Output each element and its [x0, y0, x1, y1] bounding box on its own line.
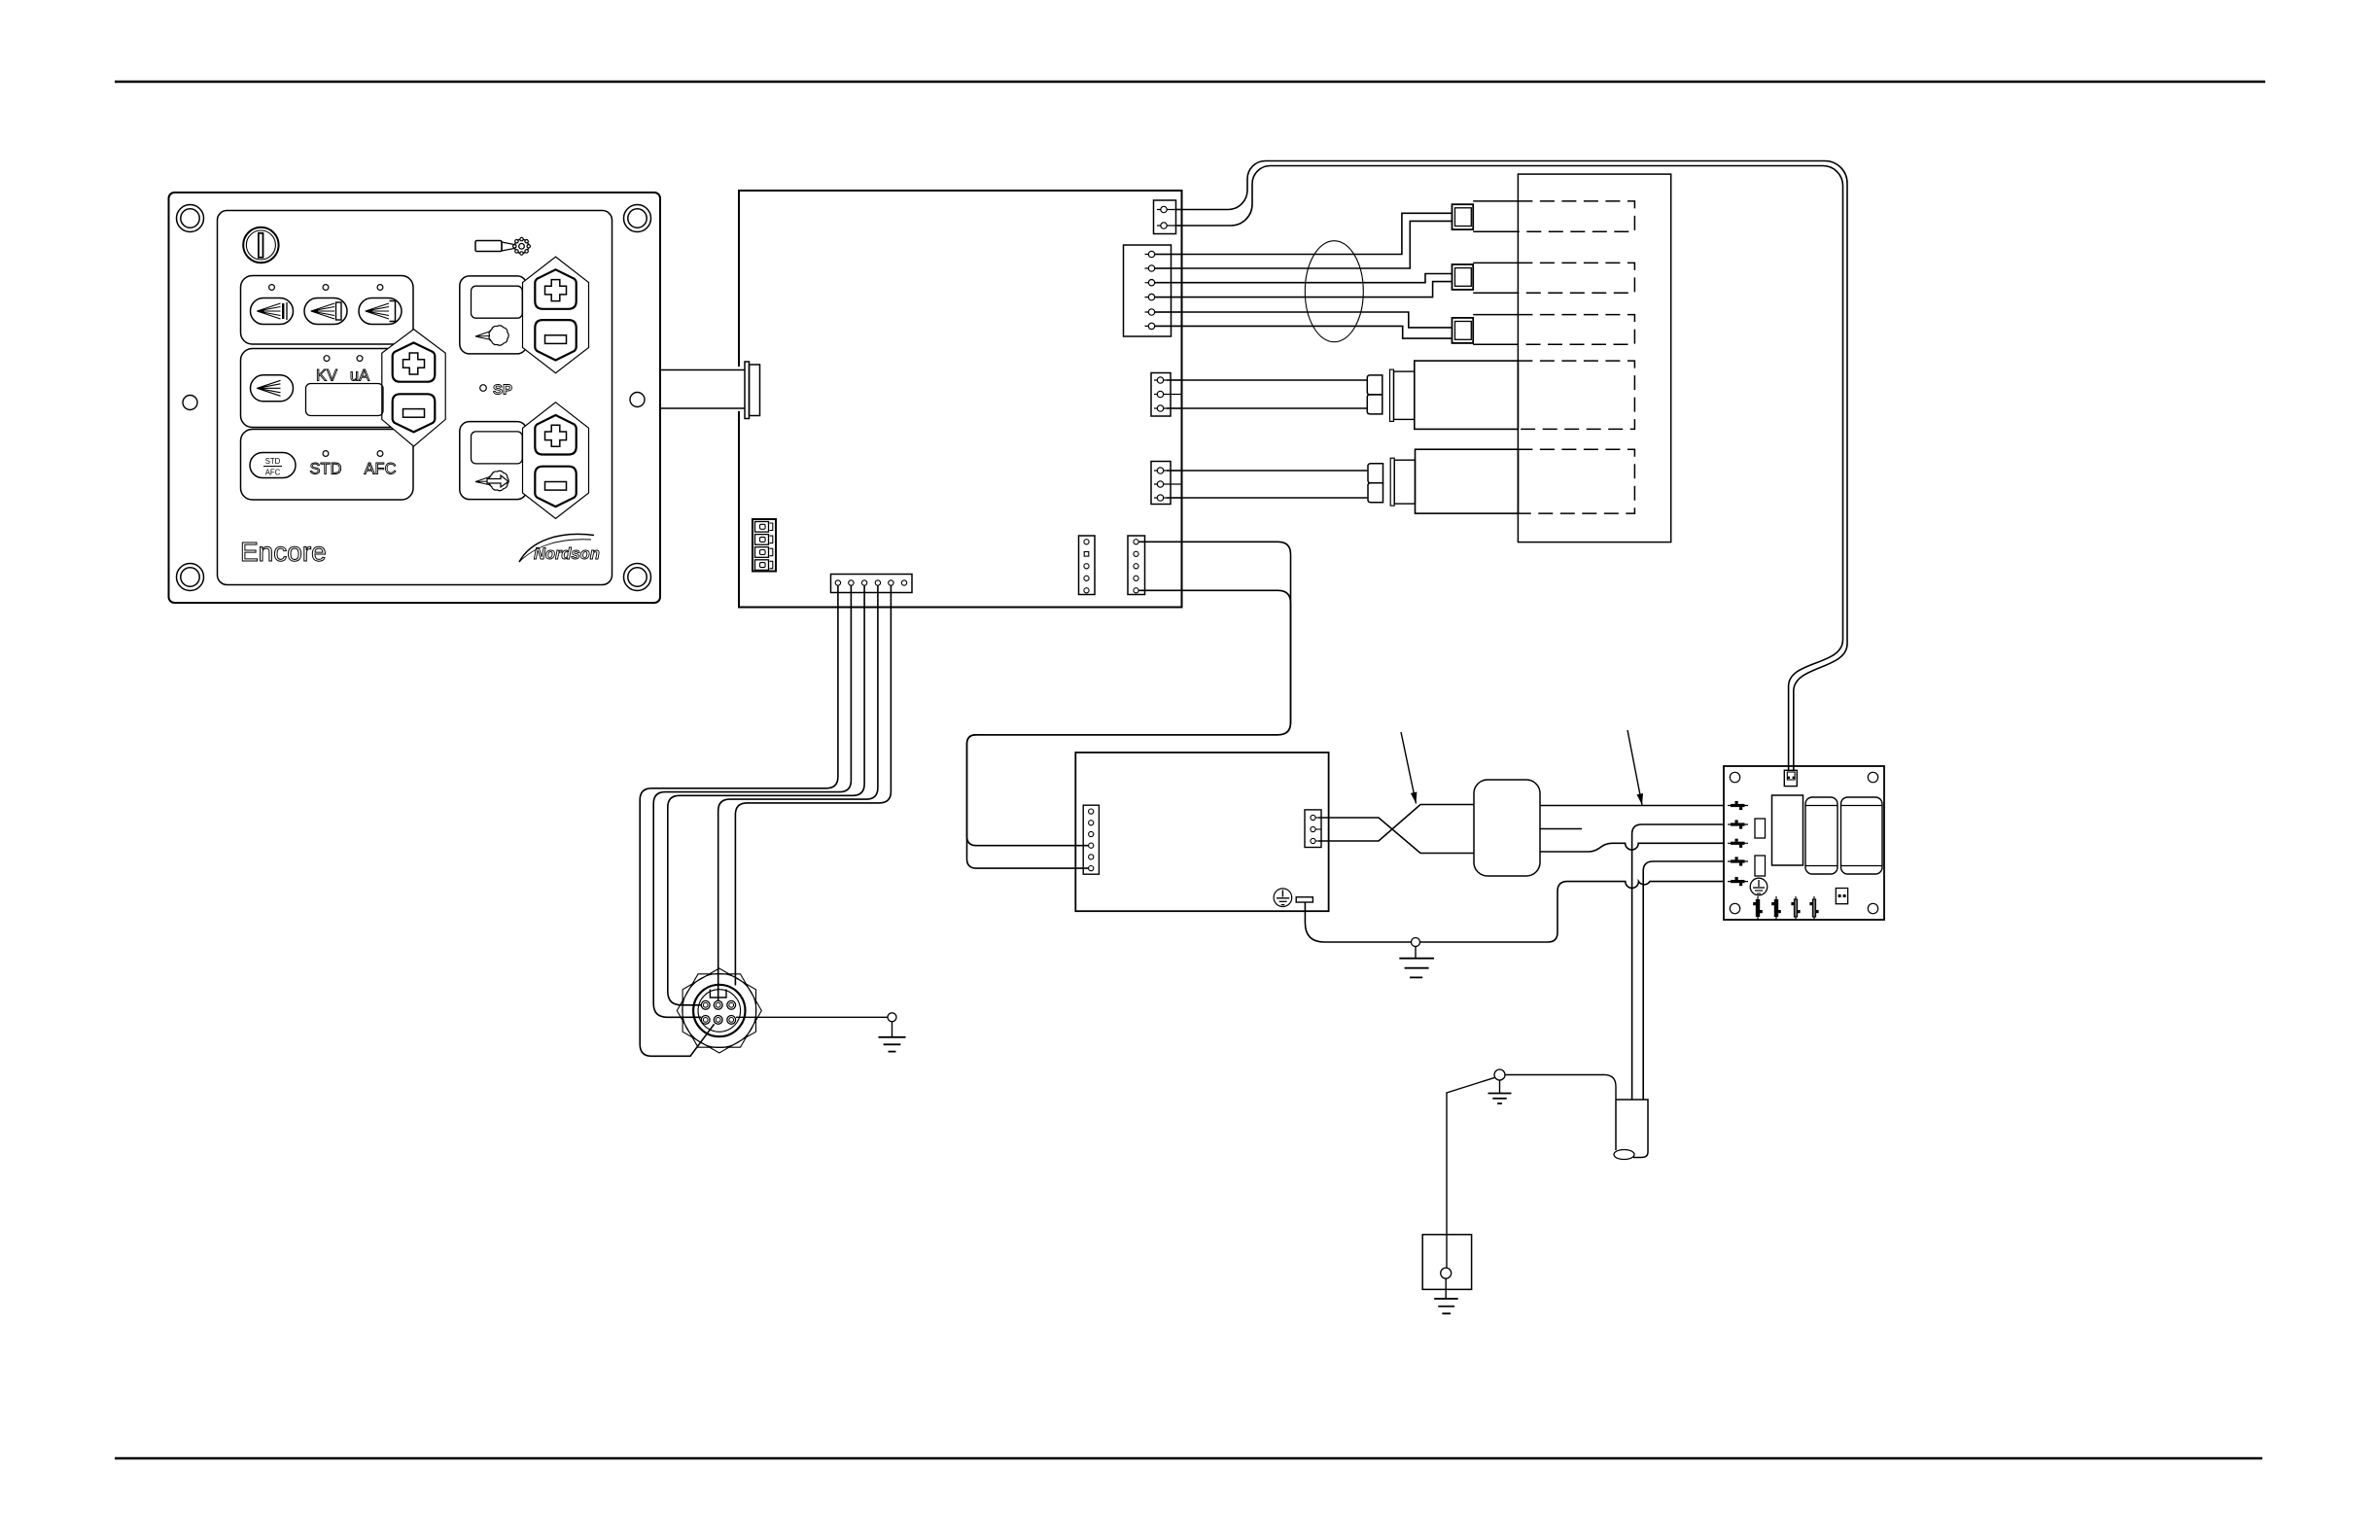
- wire J2-3 to block2: [1155, 274, 1452, 283]
- gun LED module 2 (dashed): [1473, 262, 1634, 293]
- gun contact block 1: [1452, 204, 1474, 229]
- board mounting hole 3: [1730, 903, 1739, 913]
- ground terminal (PS wire): [1412, 938, 1420, 947]
- main control board A1: [739, 191, 1182, 608]
- power button: [243, 227, 278, 262]
- wire J7-5 to connector P1: [735, 585, 891, 986]
- fuse clip F2: [1728, 820, 1748, 828]
- wire J9-1 (twisted): [1318, 818, 1474, 854]
- connector J6 (5-pin): [1128, 536, 1145, 595]
- gun solenoid cavity 1 (dashed): [1518, 361, 1634, 429]
- wire J6-1 to PS: [967, 542, 1291, 845]
- kV/uA display group: [241, 349, 414, 428]
- connector J8 (6-pin): [1083, 805, 1099, 874]
- connector J2 (6-pin): [1124, 245, 1183, 336]
- wire J6-5 to PS: [967, 590, 1291, 868]
- panel corner screw hole 2: [624, 205, 651, 232]
- spray gun adjust icon: [475, 237, 530, 255]
- capacitor C2: [1841, 797, 1883, 874]
- wire J3-3: [1167, 407, 1367, 409]
- wire J9-3 (twisted): [1318, 805, 1474, 842]
- solenoid valve 1: [1367, 361, 1518, 429]
- Nordson logo: [519, 534, 600, 563]
- connector J3 (3-pin): [1151, 373, 1182, 417]
- svg-text:SP: SP: [493, 382, 512, 399]
- gun LED module 3 (dashed): [1473, 315, 1634, 345]
- resistor R1: [1755, 819, 1766, 838]
- flow-rate display window: [472, 286, 523, 345]
- fuse clip F1: [1728, 801, 1748, 810]
- connector J9 (3-pin): [1305, 810, 1321, 848]
- fuse clip F3: [1728, 839, 1748, 848]
- cable bundle marker: [1305, 241, 1363, 342]
- panel left mid screw hole: [183, 396, 197, 410]
- svg-text:STD: STD: [265, 457, 281, 466]
- wire ferrite to F3: [1540, 843, 1724, 852]
- solenoid valve 2: [1368, 449, 1519, 513]
- AC cord conductor 2: [1643, 861, 1724, 1100]
- STD/AFC group: [241, 430, 414, 501]
- terminal block TB1 (4-pin): [752, 519, 776, 572]
- panel corner screw hole 3: [177, 564, 204, 591]
- wire to system ground: [1447, 1077, 1495, 1235]
- svg-text:KV: KV: [316, 367, 337, 385]
- ferrite bead: [1474, 780, 1540, 876]
- callout arrow 1: [1401, 732, 1417, 804]
- svg-text:AFC: AFC: [265, 469, 281, 477]
- gun power cable conductor B: [1176, 166, 1843, 771]
- AC cord conductor 1: [1632, 824, 1724, 1100]
- relay K1: [1772, 795, 1803, 865]
- gun LED module 1 (dashed): [1473, 201, 1634, 231]
- connector J1 (2-pin): [1154, 200, 1183, 234]
- fuse F7: [1771, 896, 1781, 920]
- wire J2-5 to block3: [1155, 312, 1452, 328]
- wire J2-1 to block1: [1155, 213, 1452, 254]
- wire J7-2 to connector P1: [653, 585, 851, 1017]
- wire J2-6 to block3: [1155, 326, 1452, 338]
- ground symbol (PS): [1399, 947, 1434, 978]
- svg-text:AFC: AFC: [365, 461, 397, 478]
- wire J7-3 to connector P1: [668, 585, 864, 1005]
- atomizing air group: [460, 422, 527, 500]
- wire ferrite to F1: [1540, 805, 1724, 807]
- fuse F6: [1753, 896, 1763, 920]
- board earth symbol: [1750, 878, 1767, 895]
- gun solenoid cavity 2 (dashed): [1518, 449, 1634, 513]
- ground symbol (P1): [879, 1022, 906, 1052]
- ribbon cable: [660, 370, 745, 409]
- resistor R2: [1755, 856, 1766, 876]
- wire J2-4 to block2: [1155, 282, 1452, 297]
- fuse clip F5: [1728, 877, 1748, 886]
- gun contact block 2: [1452, 264, 1474, 290]
- atomizing air up/down buttons: [523, 402, 589, 519]
- cord ground terminal: [1494, 1069, 1505, 1080]
- kV up/down buttons: [382, 330, 445, 447]
- wire J4-3: [1167, 497, 1367, 499]
- ground symbol (cord): [1488, 1080, 1512, 1103]
- atomizing air display window: [472, 432, 523, 491]
- SP indicator: [480, 382, 512, 399]
- svg-text:uA: uA: [350, 367, 369, 385]
- interlock board A2: [1724, 766, 1884, 920]
- P1 ground wire: [736, 1016, 888, 1018]
- board mounting hole 2: [1868, 772, 1877, 782]
- fuse F9: [1809, 896, 1818, 920]
- AC line cord sheath: [1614, 1100, 1648, 1160]
- PS1 protective earth lug: [1274, 889, 1312, 907]
- ground symbol (system): [1434, 1278, 1458, 1313]
- flow-rate up/down buttons: [523, 257, 589, 373]
- control panel outer plate: [169, 192, 661, 603]
- connector J11 (2-pin): [1836, 889, 1847, 904]
- board mounting hole 1: [1730, 772, 1739, 782]
- wire J4-1: [1167, 470, 1367, 472]
- capacitor C1: [1805, 797, 1837, 874]
- flow-rate air group: [460, 276, 527, 354]
- kV display window: [251, 356, 384, 416]
- fuse F8: [1791, 896, 1800, 920]
- circular connector P1 (6-pin): [677, 968, 761, 1053]
- gun power cable conductor A: [1176, 161, 1848, 771]
- ribbon cable connector: [745, 362, 760, 419]
- gun body outline: [1518, 174, 1670, 542]
- wire J2-2 to block1: [1155, 221, 1452, 268]
- Encore logo: [240, 537, 327, 567]
- fuse clip F4: [1728, 857, 1748, 865]
- power supply PS1: [1075, 752, 1328, 911]
- P1 ground terminal: [888, 1013, 896, 1022]
- system ground box: [1422, 1235, 1471, 1290]
- top rule: [115, 81, 2265, 84]
- panel inner face: [218, 211, 612, 585]
- wire stub (shield): [1540, 828, 1582, 830]
- panel right mid screw hole: [630, 393, 645, 407]
- cord ground wire: [1505, 1075, 1616, 1101]
- wire J7-1 to connector P1: [640, 585, 838, 1056]
- svg-text:STD: STD: [310, 461, 342, 478]
- panel corner screw hole 1: [177, 205, 204, 232]
- panel corner screw hole 4: [624, 564, 651, 591]
- svg-text:Encore: Encore: [240, 537, 327, 567]
- callout arrow 2: [1627, 730, 1643, 805]
- spray pattern button group: [241, 276, 414, 345]
- bottom rule: [115, 1457, 2262, 1460]
- svg-text:Nordson: Nordson: [534, 545, 600, 563]
- gun contact block 3: [1452, 318, 1474, 343]
- board mounting hole 4: [1868, 903, 1877, 913]
- connector J4 (3-pin): [1151, 462, 1182, 505]
- wire J7-4 to connector P1: [718, 585, 878, 1000]
- connector J5 (5-pin): [1079, 536, 1096, 595]
- STD/AFC button and labels: [250, 451, 397, 478]
- PS ground wire to interlock board: [1305, 882, 1724, 942]
- connector J10 (2-pin): [1784, 770, 1797, 786]
- connector J7 (6-pin): [831, 575, 913, 593]
- wire J3-1: [1167, 379, 1367, 381]
